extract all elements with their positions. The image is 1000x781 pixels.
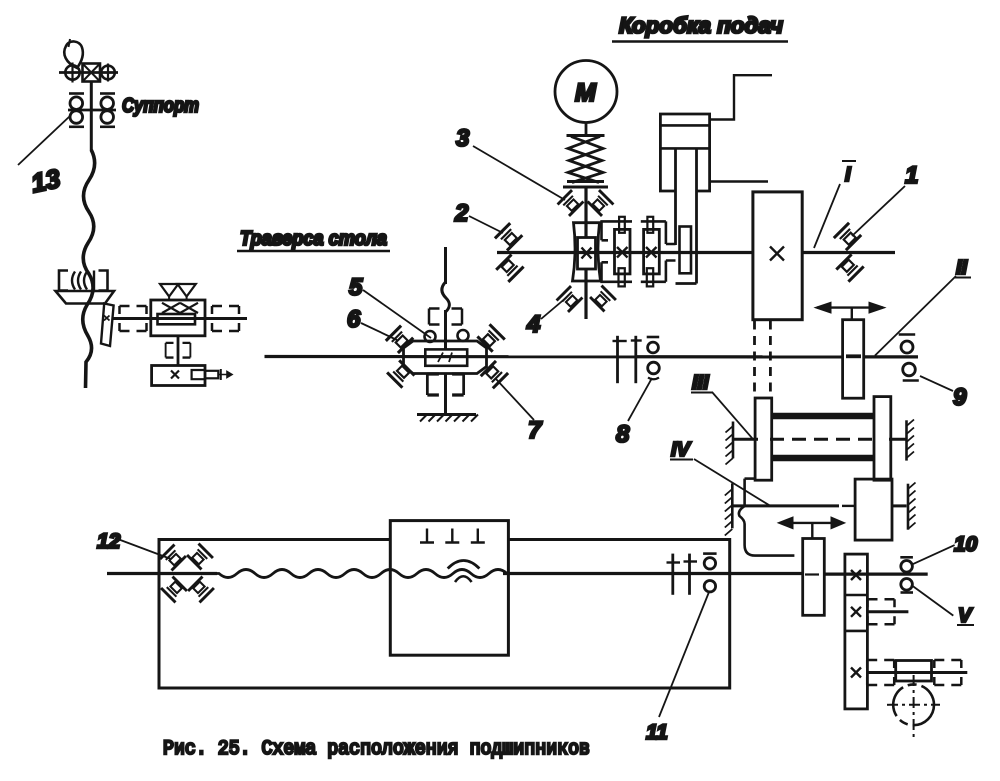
fork link top stub — [745, 477, 756, 480]
cluster x marks — [851, 570, 861, 580]
hatch ticks inside worm gear — [438, 353, 452, 363]
bottom shaft V middle — [503, 572, 803, 575]
leader 4 — [541, 297, 567, 319]
belt drive top bar — [567, 134, 605, 137]
sleeve bearing right of gearbox — [212, 306, 239, 331]
lower sleeve bearing pair — [427, 374, 463, 395]
shaft I left part — [497, 251, 753, 254]
support ball bearings right pair — [100, 92, 115, 95]
leader V — [911, 585, 953, 616]
svg-text:4: 4 — [526, 311, 540, 338]
svg-text:Рис. 25. Схема расположения по: Рис. 25. Схема расположения подшипников — [163, 738, 590, 761]
handwheel hub right (circle with cross) — [101, 66, 115, 80]
traverse screw wavy part — [442, 282, 450, 312]
svg-text:7: 7 — [528, 417, 543, 444]
worm zigzag inside case — [162, 303, 198, 313]
gear 2 x — [617, 247, 628, 258]
cylinder top cap line — [660, 124, 709, 127]
worm hourglass housing — [573, 223, 601, 281]
handwheel hub left (circle with cross) — [65, 65, 79, 79]
gear III web top — [772, 413, 874, 420]
svg-text:8: 8 — [616, 421, 630, 448]
gear block on shaft IV — [855, 479, 892, 540]
gear on low shaft — [896, 661, 932, 682]
ground base line — [417, 413, 476, 416]
angled bearing lower-right of worm — [590, 286, 616, 312]
leader 7 — [496, 379, 534, 420]
leader 13 — [18, 116, 70, 165]
svg-text:III: III — [692, 372, 709, 394]
title underline — [237, 250, 390, 253]
horizontal bevel shaft — [112, 317, 247, 320]
angled bearing 1 upper — [834, 223, 861, 250]
traverse screw lower end — [444, 374, 447, 415]
wall support III left — [732, 422, 735, 459]
nut thread arcs — [72, 272, 75, 290]
worm gear (inner) — [158, 314, 196, 324]
svg-text:6: 6 — [347, 306, 361, 333]
gear 2 bottom dog — [619, 268, 625, 286]
support ball bearings (13) left pair — [69, 92, 84, 95]
key symbol 1 — [420, 529, 434, 543]
clutch disc 11a — [671, 554, 674, 595]
shaft III (dashed) — [733, 438, 758, 441]
key symbol 3 — [471, 529, 485, 543]
ball bearing 11 upper — [703, 552, 717, 555]
support bearing line — [68, 109, 116, 112]
dial horizontal centerline — [887, 704, 940, 706]
gear II hub dash — [846, 354, 861, 356]
shifter sleeve — [680, 227, 692, 274]
gear 3 top dog — [647, 217, 653, 233]
ground hatching — [420, 415, 478, 422]
angled bearing LR — [481, 361, 508, 388]
shaft I right part — [802, 251, 895, 254]
angled bearing 2 lower — [496, 255, 523, 282]
gear cluster column — [845, 554, 868, 709]
ball bearing 9 upper — [899, 333, 916, 336]
worm input shaft — [584, 187, 587, 238]
svg-text:9: 9 — [953, 384, 967, 411]
leader 3 — [473, 146, 565, 200]
clutch disc 11b — [688, 554, 691, 595]
leader 5 — [363, 290, 431, 338]
angled bearing LL — [387, 360, 414, 387]
cylinder piston line — [660, 147, 709, 150]
traverse screw middle — [444, 310, 447, 350]
leader IV — [694, 459, 770, 506]
motor shaft upper — [585, 123, 588, 137]
handle knob — [64, 41, 83, 68]
bevel gear on screw end — [101, 304, 114, 347]
ball bearing 10 upper — [900, 556, 913, 559]
angled bearing left of input — [558, 190, 584, 216]
vertical output shaft — [177, 336, 180, 366]
leader 8 — [628, 378, 652, 421]
handwheel dial circle — [893, 684, 934, 725]
output stub shaft mid — [867, 610, 908, 613]
svg-text:Суппорт: Суппорт — [122, 95, 199, 117]
left lead screw (wavy) — [83, 150, 95, 388]
angled bearing UR — [477, 324, 504, 351]
motor M circle — [555, 61, 617, 123]
sleeve bearing left of gearbox — [120, 306, 147, 331]
gear III right rim — [874, 397, 891, 481]
title underline — [612, 40, 788, 43]
gear 3 bottom dog — [647, 268, 653, 286]
angled bearing lower-left of worm — [557, 286, 583, 312]
handle top tick — [69, 39, 71, 47]
angled bearing 12 UL — [160, 545, 186, 571]
shifter bottom bar — [676, 282, 697, 285]
traverse worm housing (barrel) — [404, 341, 487, 374]
pipe step upper — [710, 75, 772, 119]
worm output shaft lower — [584, 269, 587, 319]
leader 1 — [852, 186, 905, 236]
leader 11 — [659, 592, 709, 717]
leader III — [712, 392, 753, 439]
big block I — [753, 192, 802, 320]
nut inner line — [93, 271, 95, 291]
gear 3 x — [646, 247, 657, 258]
traverse worm gear inner — [425, 349, 467, 365]
worm wheel box — [578, 238, 596, 270]
angled bearing 1 lower — [836, 254, 863, 281]
lower drive box — [152, 366, 205, 386]
dial vertical centerline — [913, 675, 915, 737]
belt crossing zigzag — [568, 137, 602, 183]
leader 6 — [361, 323, 397, 340]
crossed box — [83, 64, 101, 82]
selector fork link (hooked line) — [739, 479, 795, 556]
plunger inside box — [192, 370, 205, 379]
half nut arcs — [448, 561, 480, 569]
sleeve bearing low right — [934, 660, 961, 685]
shift arrow shaft II — [817, 306, 883, 308]
bottom shaft V left straight — [107, 572, 217, 575]
gear III left rim — [755, 398, 772, 480]
sleeve bearing low left — [867, 660, 894, 685]
vertical screw shank — [90, 82, 93, 152]
ball bearing 11 lower — [704, 581, 715, 592]
feed screw wavy — [215, 570, 507, 578]
dashed drop line right — [769, 321, 772, 398]
big block x — [770, 247, 784, 261]
wall support IV left — [731, 483, 734, 528]
wall support IV right — [907, 484, 910, 530]
leader 2 — [469, 216, 503, 233]
plunger cylinder — [205, 371, 218, 379]
leader 10 — [912, 545, 954, 564]
angled bearing 12 UR — [187, 544, 213, 570]
shift arrow shaft IV — [782, 522, 841, 524]
bottom shaft V right — [824, 572, 927, 575]
angled bearing right of input — [588, 190, 614, 216]
belt drive bottom bars — [567, 180, 604, 183]
ball bearing circles 5 — [425, 331, 436, 342]
gear on shaft II — [843, 320, 864, 399]
sleeve bearing on vertical shaft — [166, 343, 191, 358]
clutch disc 2 — [634, 336, 637, 383]
sliding gear 2 bracket — [600, 221, 632, 281]
angled bearing 2 upper — [495, 223, 522, 250]
svg-text:12: 12 — [97, 530, 121, 553]
clutch disc 1 — [616, 336, 619, 383]
svg-text:10: 10 — [954, 533, 978, 556]
shifter fork rods — [674, 148, 677, 245]
dashed drop line left — [753, 321, 756, 398]
nut bracket left — [59, 271, 68, 291]
bevel gear cross mark — [104, 316, 110, 321]
svg-text:M: M — [575, 79, 597, 107]
svg-text:1: 1 — [905, 162, 918, 189]
sliding gear on shaft V — [803, 539, 825, 616]
shaft IV — [732, 504, 839, 507]
worm gearbox outer case — [151, 300, 205, 336]
traverse vertical screw top — [444, 247, 447, 284]
svg-text:2: 2 — [454, 200, 469, 227]
ball bearing 9 lower — [903, 363, 916, 376]
sleeve bearing mid stub — [868, 599, 895, 624]
angled bearing 12 LL — [161, 577, 187, 603]
svg-text:Коробка подач: Коробка подач — [619, 13, 783, 38]
angled bearing UL — [386, 326, 413, 353]
svg-text:I: I — [845, 164, 851, 186]
pipe lower — [710, 180, 768, 182]
svg-text:IV: IV — [671, 439, 692, 461]
ball bearing 8 lower — [648, 362, 660, 374]
upper sleeve bearing pair — [429, 309, 462, 325]
wall support III right — [905, 420, 908, 460]
gear III web bottom — [772, 455, 874, 462]
gear 2 top dog — [619, 217, 625, 233]
sliding gear 3 body — [644, 229, 660, 274]
svg-text:II: II — [956, 257, 968, 279]
svg-text:5: 5 — [349, 274, 363, 301]
worm wheel x — [582, 248, 592, 259]
svg-text:13: 13 — [28, 163, 63, 198]
svg-text:3: 3 — [456, 125, 470, 152]
main shaft II (second row) — [265, 355, 843, 359]
nut bracket right — [99, 271, 108, 291]
svg-text:Траверса стола: Траверса стола — [240, 228, 387, 250]
x mark in drive box — [171, 371, 179, 379]
nut carrier trapezoid — [56, 291, 115, 304]
sliding gear 2 body — [615, 229, 631, 274]
output shaft low — [867, 671, 967, 674]
handle cross shaft — [59, 71, 118, 74]
leader I — [814, 184, 840, 248]
ball bearing 10 lower — [901, 579, 913, 591]
plunger arrow — [220, 369, 222, 380]
bevel pair triangles on top — [160, 284, 178, 297]
svg-text:V: V — [958, 605, 973, 627]
ball bearing 8 upper — [647, 336, 660, 339]
svg-text:11: 11 — [646, 721, 668, 744]
leader 9 — [920, 376, 953, 391]
key symbol 2 — [445, 529, 459, 543]
angled bearing 12 LR — [188, 577, 214, 603]
hydraulic cylinder body — [660, 114, 709, 191]
apron box — [390, 521, 508, 656]
machine frame — [159, 540, 730, 689]
sliding gear 3 bracket — [641, 221, 676, 281]
leader II — [875, 276, 956, 356]
gear V hub dash — [805, 573, 819, 575]
leader 12 — [115, 538, 171, 559]
